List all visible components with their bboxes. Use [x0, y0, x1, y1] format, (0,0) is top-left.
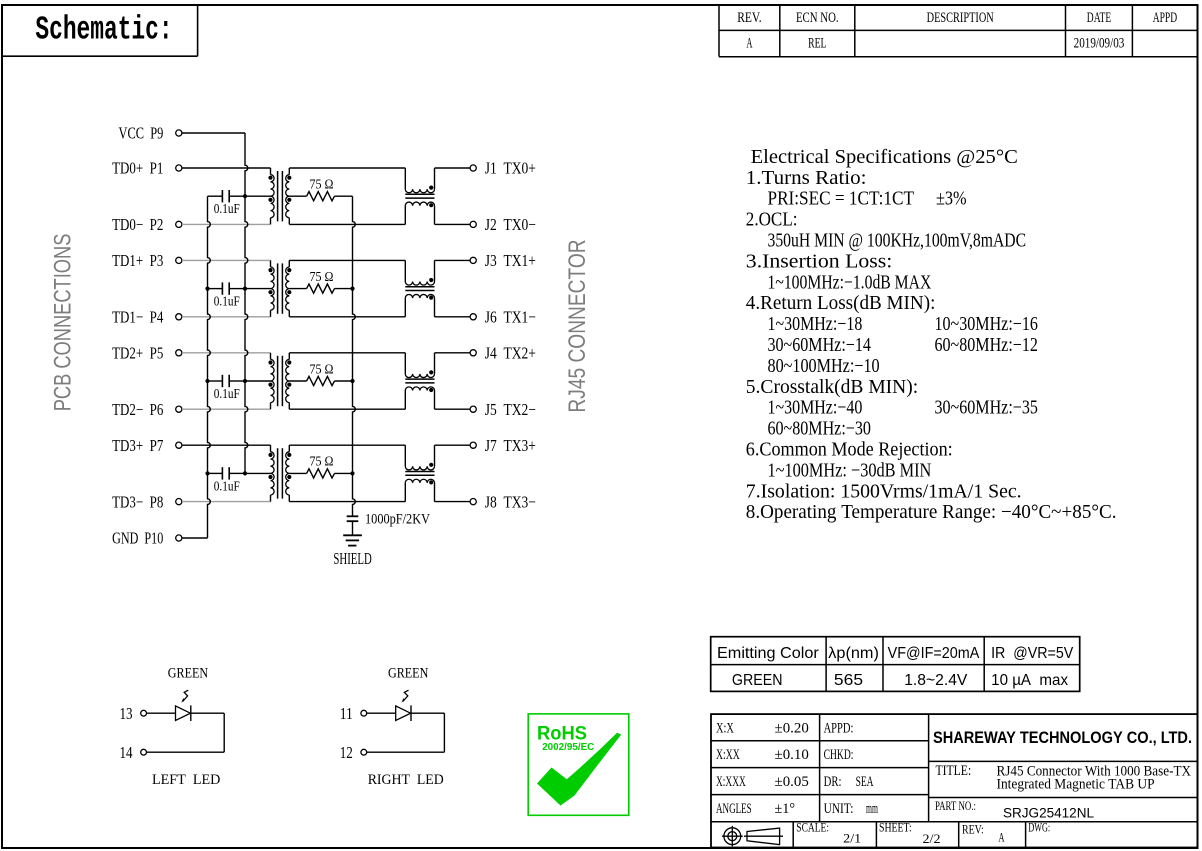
- ground SHIELD: [333, 535, 371, 568]
- svg-text:SRJG25412NL: SRJG25412NL: [1003, 805, 1094, 820]
- wire P8: [182, 501, 271, 503]
- LED D1 left green: [120, 665, 225, 788]
- capacitor C1 0.1uF: [208, 190, 246, 216]
- wire secondary top ch3: [289, 444, 405, 446]
- revision table: [719, 5, 1198, 57]
- wire P4: [182, 316, 271, 318]
- svg-text:IR @VR=5V: IR @VR=5V: [991, 645, 1073, 662]
- wire secondary top ch2: [289, 352, 405, 354]
- svg-text:±1°: ±1°: [775, 801, 796, 817]
- wire P3: [182, 259, 271, 261]
- svg-text:VF@IF=20mA: VF@IF=20mA: [888, 645, 980, 662]
- svg-text:CHKD:: CHKD:: [824, 747, 854, 763]
- svg-text:GREEN: GREEN: [168, 665, 208, 681]
- svg-text:GREEN: GREEN: [388, 665, 428, 681]
- svg-text:12: 12: [340, 743, 353, 762]
- svg-text:X:XX: X:XX: [716, 747, 740, 763]
- pin P5 TD2+: [112, 344, 182, 363]
- svg-text:UNIT:: UNIT:: [824, 801, 854, 817]
- capacitor C5 1000pF/2KV: [347, 512, 430, 536]
- RoHS logo: [528, 714, 629, 815]
- svg-text:565: 565: [834, 672, 863, 689]
- svg-text:11: 11: [340, 704, 353, 723]
- electrical specifications text: [746, 146, 1117, 523]
- svg-text:2/1: 2/1: [843, 830, 861, 845]
- svg-text:DWG:: DWG:: [1028, 820, 1050, 835]
- common-mode choke L2: [405, 260, 434, 316]
- pin J1 TX0+: [435, 159, 536, 178]
- title block: [711, 714, 1198, 847]
- pin P10 GND: [112, 529, 182, 548]
- projection angle symbol: [722, 826, 783, 846]
- svg-text:13: 13: [120, 704, 133, 723]
- svg-text:2002/95/EC: 2002/95/EC: [542, 742, 594, 753]
- common-mode choke L1: [405, 168, 434, 224]
- svg-text:2/2: 2/2: [923, 831, 941, 846]
- pin P1 TD0+: [112, 159, 182, 178]
- svg-text:λp(nm): λp(nm): [828, 645, 879, 662]
- pin P4 TD1−: [112, 308, 182, 327]
- transformer T4: [245, 445, 291, 501]
- wire secondary bottom ch0: [289, 223, 405, 225]
- svg-text:SHAREWAY TECHNOLOGY CO., LTD.: SHAREWAY TECHNOLOGY CO., LTD.: [933, 728, 1192, 747]
- pin J5 TX2−: [435, 400, 536, 419]
- wire secondary top ch0: [289, 167, 405, 169]
- pin J2 TX0−: [435, 215, 536, 234]
- title block texts: [716, 720, 1192, 846]
- resistor R3 75 ohm: [289, 361, 352, 385]
- wire P7: [182, 444, 271, 446]
- wire secondary bottom ch1: [289, 316, 405, 318]
- pin P9 VCC: [119, 124, 182, 143]
- wire secondary top ch1: [289, 259, 405, 261]
- wire P2: [182, 223, 271, 225]
- svg-text:REV:: REV:: [962, 822, 984, 837]
- svg-text:APPD:: APPD:: [824, 720, 854, 736]
- pin P3 TD1+: [112, 251, 182, 270]
- transformer T1: [245, 168, 291, 224]
- svg-text:SCALE:: SCALE:: [796, 820, 829, 835]
- common-mode choke L3: [405, 353, 434, 409]
- pin P6 TD2−: [112, 400, 182, 419]
- resistor R4 75 ohm: [289, 454, 352, 478]
- capacitor C3 0.1uF: [208, 375, 246, 401]
- resistor R1 75 ohm: [289, 177, 352, 201]
- wire P6: [182, 408, 271, 410]
- svg-text:mm: mm: [866, 801, 878, 817]
- wire termination rail: [350, 196, 355, 516]
- svg-text:14: 14: [120, 743, 133, 762]
- svg-text:DR:: DR:: [824, 774, 842, 790]
- svg-text:±0.20: ±0.20: [775, 720, 809, 736]
- svg-text:10 µA max: 10 µA max: [991, 672, 1068, 689]
- wire P10: [182, 537, 208, 539]
- schematic title box: [2, 5, 198, 56]
- svg-text:A: A: [999, 830, 1005, 845]
- wire P5: [182, 352, 271, 354]
- svg-text:1.8~2.4V: 1.8~2.4V: [904, 672, 968, 689]
- wire P1: [182, 167, 271, 169]
- svg-text:X:X: X:X: [716, 720, 734, 736]
- pin J7 TX3+: [435, 436, 536, 455]
- LED D2 right green: [340, 665, 445, 788]
- svg-text:Integrated Magnetic TAB UP: Integrated Magnetic TAB UP: [997, 776, 1155, 792]
- svg-text:TITLE:: TITLE:: [936, 763, 972, 779]
- wire secondary bottom ch2: [289, 408, 405, 410]
- wire P9: [182, 132, 245, 134]
- svg-text:±0.05: ±0.05: [775, 774, 809, 790]
- svg-text:SEA: SEA: [856, 774, 874, 790]
- pin J3 TX1+: [435, 251, 536, 270]
- svg-text:GREEN: GREEN: [732, 672, 783, 689]
- pin J8 TX3−: [435, 492, 536, 511]
- pin P8 TD3−: [112, 492, 182, 511]
- capacitor C4 0.1uF: [208, 467, 246, 493]
- resistor R2 75 ohm: [289, 269, 352, 293]
- wire VCC rail: [243, 133, 248, 476]
- emitting color table: [711, 637, 1080, 692]
- wire GND rail: [205, 196, 210, 538]
- wire secondary bottom ch3: [289, 501, 405, 503]
- pin P7 TD3+: [112, 436, 182, 455]
- svg-text:±0.10: ±0.10: [775, 747, 809, 763]
- pin J6 TX1−: [435, 308, 536, 327]
- transformer T3: [245, 353, 291, 409]
- RJ45 CONNECTOR label: [564, 239, 591, 412]
- svg-text:ANGLES: ANGLES: [716, 801, 752, 817]
- svg-text:PART NO.:: PART NO.:: [935, 798, 976, 813]
- svg-text:RIGHT LED: RIGHT LED: [368, 772, 444, 788]
- svg-text:X:XXX: X:XXX: [716, 774, 746, 790]
- transformer T2: [245, 260, 291, 316]
- svg-text:Emitting Color: Emitting Color: [717, 645, 819, 662]
- svg-text:SHEET:: SHEET:: [879, 820, 912, 835]
- common-mode choke L4: [405, 445, 434, 501]
- pin P2 TD0−: [112, 215, 182, 234]
- svg-text:LEFT LED: LEFT LED: [152, 772, 221, 788]
- PCB CONNECTIONS label: [50, 234, 77, 412]
- pin J4 TX2+: [435, 344, 536, 363]
- capacitor C2 0.1uF: [208, 282, 246, 308]
